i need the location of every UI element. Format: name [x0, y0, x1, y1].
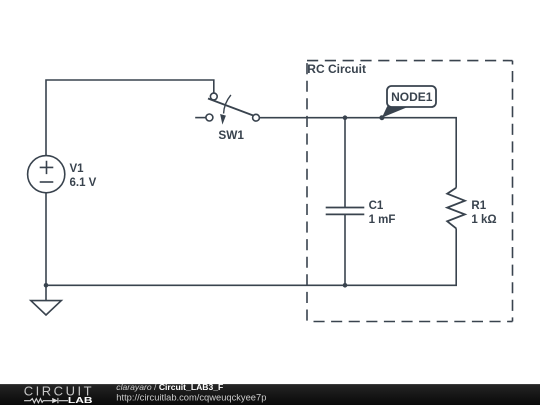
svg-text:1 kΩ: 1 kΩ	[471, 214, 496, 226]
label SW1	[218, 128, 244, 142]
wire switch right throw to resistor top	[259, 118, 456, 188]
switch SW1	[206, 93, 260, 125]
wire V1 bottom	[45, 193, 47, 285]
junction dot capacitor bottom	[343, 283, 348, 288]
footer bar	[0, 384, 540, 405]
capacitor C1	[326, 208, 365, 215]
svg-text:C1: C1	[369, 200, 384, 212]
svg-text:R1: R1	[471, 200, 486, 212]
ground	[31, 285, 62, 315]
resistor R1	[447, 188, 465, 229]
label V1 value	[70, 163, 97, 189]
svg-text:SW1: SW1	[218, 128, 244, 142]
RC Circuit dashed box	[307, 61, 513, 322]
label R1 value	[471, 200, 496, 226]
svg-text:clarayaro / Circuit_LAB3_F: clarayaro / Circuit_LAB3_F	[116, 382, 223, 392]
svg-text:NODE1: NODE1	[391, 90, 433, 104]
svg-text:LAB: LAB	[68, 397, 93, 405]
wire switch left throw stub	[195, 117, 206, 119]
junction dot NODE1	[379, 115, 384, 120]
svg-text:6.1 V: 6.1 V	[70, 177, 97, 189]
wire resistor bottom to ground node	[46, 228, 456, 285]
svg-text:http://circuitlab.com/cqweuqck: http://circuitlab.com/cqweuqckyee7p	[116, 392, 266, 402]
node NODE1 flag	[382, 86, 436, 118]
label RC Circuit	[307, 62, 366, 76]
voltage source V1	[28, 156, 65, 193]
junction dot ground node	[44, 283, 49, 288]
svg-text:V1: V1	[70, 163, 85, 175]
svg-text:1 mF: 1 mF	[369, 214, 396, 226]
footer CircuitLab logo	[24, 384, 94, 405]
junction dot capacitor top	[343, 115, 348, 120]
footer title text	[116, 382, 266, 402]
wire capacitor bottom branch	[344, 214, 346, 285]
wire V1 top to switch pole	[46, 80, 214, 156]
svg-text:RC Circuit: RC Circuit	[307, 62, 366, 76]
wire capacitor top branch	[344, 118, 346, 208]
label C1 value	[369, 200, 396, 226]
